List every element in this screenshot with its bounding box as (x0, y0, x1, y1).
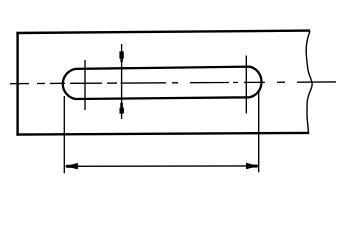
slot outline (63, 67, 262, 99)
horizontal centerline (10, 82, 336, 84)
plate top edge (16, 31, 310, 33)
slot width dimension line (121, 44, 123, 119)
right extension line (258, 91, 260, 173)
break line (wavy) (306, 31, 312, 133)
right arc centerline (245, 56, 247, 114)
plate left edge (16, 32, 18, 136)
width dim arrowhead top (119, 51, 123, 62)
slot length dimension line (66, 165, 259, 167)
length dim arrowhead left (65, 163, 78, 170)
length dim arrowhead right (246, 163, 258, 170)
left extension line (63, 96, 65, 173)
left arc centerline (84, 60, 86, 110)
width dim arrowhead bottom (120, 103, 124, 114)
plate bottom edge (16, 133, 309, 135)
